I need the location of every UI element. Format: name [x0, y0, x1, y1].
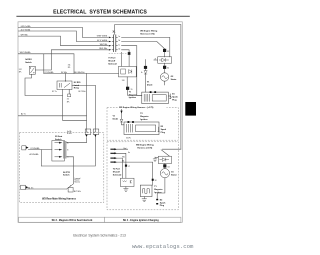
- ignition armature T1: [129, 91, 169, 103]
- connector X2 blob: [126, 87, 129, 90]
- svg-text:Plug: Plug: [160, 205, 165, 207]
- svg-text:GRN Yel/Blk: GRN Yel/Blk: [21, 26, 31, 28]
- solenoid Y1: [108, 58, 136, 83]
- wire vertical B1: [86, 74, 88, 132]
- svg-text:W5 Engine Wiring: W5 Engine Wiring: [140, 30, 158, 32]
- connector X4 blob: [163, 66, 169, 70]
- svg-text:Magneto: Magneto: [140, 115, 149, 118]
- switch S6 PTO: [63, 172, 80, 192]
- svg-text:Gn Blk: Gn Blk: [67, 131, 72, 133]
- svg-text:Electrical System Schematics: Electrical System Schematics - 213: [73, 233, 126, 237]
- svg-text:Magneto: Magneto: [129, 93, 138, 96]
- wire boxC row4: [117, 162, 153, 185]
- svg-text:X4: X4: [168, 166, 170, 168]
- svg-text:BLU Blk/Wht: BLU Blk/Wht: [74, 71, 85, 74]
- svg-text:RED Wht: RED Wht: [99, 47, 107, 50]
- wire S4 lower loop: [25, 74, 63, 95]
- wire relay right pin: [72, 85, 95, 87]
- svg-text:Plug: Plug: [161, 132, 166, 134]
- svg-text:X4: X4: [167, 68, 169, 70]
- svg-text:Harness (<175): Harness (<175): [140, 33, 155, 36]
- svg-text:Ignition: Ignition: [140, 118, 148, 121]
- svg-text:Harness (<175): Harness (<175): [137, 147, 152, 150]
- ignition armature T2: [124, 121, 159, 140]
- wire relay bottom stub X4: [68, 90, 70, 95]
- connector X2 tick: [128, 52, 130, 55]
- wire Y1 bottom: [127, 77, 142, 96]
- X1 connector: [109, 30, 120, 52]
- svg-text:www.epcatalogs.com: www.epcatalogs.com: [132, 243, 194, 250]
- svg-text:X6: X6: [86, 132, 88, 134]
- svg-text:X11: X11: [68, 64, 71, 66]
- svg-text:X7: X7: [128, 166, 130, 168]
- solenoid Y1 dashed top: [109, 53, 127, 55]
- svg-text:X8: X8: [155, 180, 157, 182]
- wire V1b stub: [121, 108, 123, 119]
- wire X1 row4 to Y1: [122, 50, 130, 67]
- svg-text:Switch: Switch: [63, 174, 70, 177]
- wire S4 switch to row4: [35, 50, 51, 70]
- title rule: [16, 15, 189, 18]
- svg-text:3PL: 3PL: [19, 72, 22, 74]
- wire seat row A: [67, 138, 87, 143]
- svg-text:X3: X3: [167, 51, 169, 53]
- wire V1 vertical: [145, 60, 147, 93]
- svg-text:Gn: Gn: [128, 152, 130, 154]
- svg-text:W3 Rear Main Wiring Harness: W3 Rear Main Wiring Harness: [42, 198, 77, 201]
- svg-text:W5 Engine Wiring: W5 Engine Wiring: [136, 144, 154, 147]
- harness W3 dashed box: [20, 133, 104, 203]
- wire boxC row2: [117, 153, 126, 178]
- wire relay bottom left: [63, 90, 87, 121]
- connector X4 below relay: [67, 94, 71, 103]
- svg-text:Latch: Latch: [74, 84, 80, 87]
- connector A1a on dashed edge: [22, 146, 29, 150]
- svg-text:B: B: [67, 150, 68, 152]
- outer border frame: [18, 22, 182, 223]
- wire seat row B loop: [42, 136, 96, 167]
- wire wrap top: [115, 25, 181, 150]
- wire row2 diagonal to X3: [122, 42, 165, 57]
- svg-text:K2 RIO: K2 RIO: [74, 82, 81, 84]
- wire Y1 top pin 2: [121, 52, 123, 66]
- svg-text:WHT Wht/Blk: WHT Wht/Blk: [20, 51, 31, 54]
- svg-text:X10: X10: [122, 80, 125, 82]
- svg-text:Stator: Stator: [171, 78, 177, 81]
- svg-text:W5 Engine Wiring Harness - (<1: W5 Engine Wiring Harness - (<175): [119, 106, 154, 109]
- diode V1b stub arrow: [120, 111, 122, 114]
- svg-text:S5 Seat: S5 Seat: [55, 135, 63, 138]
- svg-text:S6 PTO: S6 PTO: [63, 172, 71, 174]
- svg-text:Y1 Fuel: Y1 Fuel: [108, 58, 116, 60]
- svg-text:Switch: Switch: [25, 61, 32, 64]
- wire boxC row3: [117, 158, 123, 178]
- svg-text:5b: 5b: [118, 40, 120, 42]
- wire relay top pin: [65, 74, 67, 82]
- connector B1: [85, 129, 91, 137]
- svg-text:Y2 Fuel: Y2 Fuel: [113, 168, 121, 170]
- svg-text:Ignition: Ignition: [154, 191, 162, 194]
- svg-text:40 V Yel/Blk: 40 V Yel/Blk: [21, 29, 31, 31]
- wire 2 40V: [18, 31, 108, 42]
- spark plug E2b with ground: [142, 178, 166, 207]
- svg-text:K2 Wht/Blk: K2 Wht/Blk: [45, 71, 54, 74]
- svg-text:Magneto: Magneto: [154, 188, 163, 191]
- svg-text:X7: X7: [94, 132, 96, 134]
- svg-text:5c: 5c: [118, 44, 120, 46]
- connector X3 blob: [163, 49, 169, 53]
- svg-text:Shutoff: Shutoff: [113, 170, 120, 173]
- connector X5 blob: [163, 164, 169, 168]
- alternator G2: [160, 73, 176, 81]
- svg-text:5d: 5d: [118, 49, 120, 51]
- diode box V2: [154, 57, 172, 63]
- switch S4 RIO: [19, 58, 36, 74]
- svg-text:Ignition: Ignition: [129, 96, 137, 99]
- spark plug E1: [169, 94, 178, 102]
- wire A2: [18, 115, 86, 117]
- wire V1b to T2: [122, 122, 125, 125]
- svg-text:Plug: Plug: [172, 99, 177, 101]
- wire 1 GRN: [18, 27, 108, 37]
- wire row4 to X1: [51, 49, 108, 51]
- svg-text:Stator: Stator: [171, 174, 177, 177]
- connector A1b on dashed edge: [21, 185, 29, 189]
- svg-text:BLT Wht: BLT Wht: [74, 190, 81, 193]
- svg-text:5a: 5a: [118, 36, 120, 38]
- svg-text:K2 Tx: K2 Tx: [52, 91, 57, 93]
- svg-text:40 V Yel/Blk: 40 V Yel/Blk: [97, 40, 107, 42]
- svg-text:X12: X12: [19, 69, 22, 71]
- diode V1: [141, 66, 153, 87]
- svg-text:K2 Wht/Blk: K2 Wht/Blk: [31, 147, 40, 150]
- svg-text:A2 Tx: A2 Tx: [21, 113, 26, 116]
- ignition armature T3: [140, 179, 163, 197]
- solenoid Y2: [113, 165, 134, 192]
- svg-text:Spark: Spark: [172, 97, 178, 99]
- wire G2 bottom: [164, 81, 166, 85]
- relay K2: [57, 64, 81, 89]
- harness W5 box C dashed: [107, 142, 178, 210]
- wire vertical B2: [94, 86, 96, 132]
- svg-text:Red: Red: [124, 148, 127, 150]
- svg-text:ELECTRICAL SYSTEM SCHEMATICS: ELECTRICAL SYSTEM SCHEMATICS: [53, 10, 147, 16]
- wire seat row C: [67, 157, 74, 184]
- wire A1 to PTO: [26, 188, 67, 190]
- svg-text:A1 Gn: A1 Gn: [28, 186, 33, 189]
- wire seat lower loop: [41, 150, 43, 166]
- svg-text:Shutoff: Shutoff: [108, 59, 115, 62]
- svg-text:GRN Yel/Blk: GRN Yel/Blk: [97, 36, 107, 38]
- switch S5 seat: [52, 135, 69, 161]
- wire E1 pin: [168, 95, 170, 97]
- chapter tab: [185, 102, 196, 116]
- svg-text:Spark: Spark: [160, 202, 166, 204]
- svg-text:S4 RIO: S4 RIO: [25, 58, 32, 61]
- wire 3 WHT Blk: [18, 36, 108, 46]
- svg-text:Diode: Diode: [113, 119, 119, 121]
- connector B2: [93, 129, 99, 137]
- svg-text:Diode: Diode: [147, 85, 153, 87]
- wire box2 chain to G1: [164, 164, 166, 169]
- svg-text:2PL: 2PL: [68, 67, 71, 69]
- svg-text:WHT Blk: WHT Blk: [21, 35, 28, 37]
- wire diode box to G2: [164, 63, 166, 73]
- svg-text:BLT Wht: BLT Wht: [79, 90, 86, 93]
- svg-text:Relay: Relay: [74, 88, 80, 90]
- svg-text:X6 2PL: X6 2PL: [126, 138, 131, 140]
- wire node BLU y73.5: [44, 73, 119, 75]
- svg-text:Solenoid: Solenoid: [113, 174, 122, 176]
- svg-text:Solenoid: Solenoid: [108, 63, 117, 65]
- boxC stub arrows: [110, 149, 114, 162]
- wire K2 into seat connector: [28, 149, 52, 151]
- ground G: [153, 157, 158, 162]
- svg-text:SE 4 - Engine Ignition Chargin: SE 4 - Engine Ignition Charging: [123, 219, 159, 222]
- harness W5 box B dashed: [107, 108, 178, 141]
- svg-text:SE 3 - Magneto RIO & Seat Inte: SE 3 - Magneto RIO & Seat Interlock: [52, 219, 93, 222]
- wire row3 down to T1: [122, 46, 142, 96]
- diode V1b: [113, 116, 123, 123]
- wire 4 WHT Wht/Blk: [18, 54, 74, 74]
- diode box V3: [158, 156, 171, 163]
- svg-text:S4 Wht: S4 Wht: [61, 71, 67, 74]
- wire boxC row1: [117, 149, 181, 156]
- svg-text:Raised: Raised: [75, 180, 80, 182]
- left wire labels: [20, 26, 31, 54]
- svg-text:Blk: Blk: [122, 161, 124, 163]
- X1 connector labels left: [97, 36, 108, 50]
- svg-text:3PL: 3PL: [67, 101, 70, 103]
- svg-text:WHT Blk: WHT Blk: [100, 44, 107, 46]
- svg-text:Spark: Spark: [161, 129, 167, 131]
- wire row1 to diode box: [122, 37, 170, 56]
- alternator G1: [160, 169, 177, 178]
- spark plug E2: [158, 126, 167, 134]
- caption bar SE3: [19, 217, 105, 222]
- caption bar SE4: [104, 217, 181, 222]
- svg-text:A2 Wht/Blk: A2 Wht/Blk: [30, 153, 39, 156]
- svg-text:X4: X4: [67, 99, 69, 101]
